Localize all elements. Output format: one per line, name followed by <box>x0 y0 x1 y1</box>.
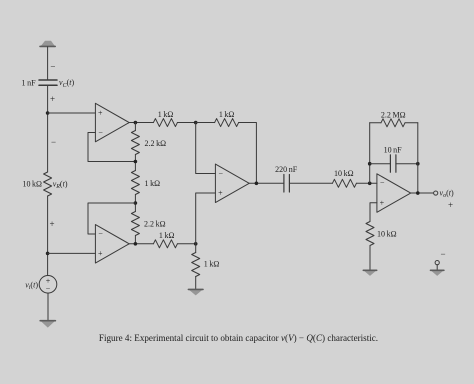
svg-text:10 kΩ: 10 kΩ <box>334 169 354 178</box>
node n7 <box>194 242 198 246</box>
capacitor C2 220nF <box>284 175 290 193</box>
resistor R8 1k <box>153 119 177 127</box>
wire R1 to node n2 to source Vs <box>47 196 49 276</box>
ground (below terminal T2) <box>430 270 444 276</box>
wire n10 up to feedback branches <box>369 123 371 184</box>
wire R5 to node n7 <box>177 243 195 245</box>
svg-text:1 kΩ: 1 kΩ <box>204 259 220 268</box>
wire n4 to R2 <box>134 123 136 131</box>
node d3 (U4 output) <box>416 191 420 195</box>
node n3 <box>134 160 138 164</box>
svg-text:vR(t): vR(t) <box>53 179 68 190</box>
svg-text:1 kΩ: 1 kΩ <box>145 179 161 188</box>
wire U2 output to node n6 to R5 <box>129 243 153 245</box>
svg-text:−: − <box>46 285 51 294</box>
node n8 <box>194 121 198 125</box>
wire right vertical down to output node <box>417 123 419 193</box>
svg-text:+: + <box>218 189 223 198</box>
svg-text:−: − <box>98 230 103 239</box>
op-amp U2 <box>95 225 129 263</box>
wire R9 through node n10 to U4 - input <box>356 182 377 184</box>
wire n1 to U1 + input <box>48 112 96 114</box>
node n5 <box>134 201 138 205</box>
ground (signal, up-pointing, top of C1) <box>40 41 55 47</box>
op-amp U4 <box>377 174 411 213</box>
svg-text:−: − <box>98 128 103 137</box>
wire R8 to node n8 <box>177 122 195 124</box>
wire R6 to ground <box>195 277 197 290</box>
op-amp U3 <box>215 164 249 203</box>
svg-text:−: − <box>219 169 224 178</box>
wire n7 up to U3 + input <box>196 193 216 244</box>
wire ground to C1 top <box>47 47 49 80</box>
resistor R1 10k <box>44 172 52 196</box>
resistor R4 2.2k <box>131 212 139 236</box>
capacitor C1 1nF <box>39 80 57 85</box>
wire n7 down to R6 <box>195 244 197 253</box>
wire U3 output through n9 to C2 <box>249 182 284 184</box>
svg-text:+: + <box>50 219 55 229</box>
node n9 (U3 output) <box>255 182 259 186</box>
terminal T1 vo(t) <box>434 191 438 195</box>
node n10 <box>368 182 372 186</box>
resistor R9 10k <box>332 179 356 187</box>
wire n2 to U2 + input <box>48 252 96 254</box>
svg-text:+: + <box>50 94 55 104</box>
wire U1 output to node n4 to R8 <box>129 122 153 124</box>
source Vs vi(t) <box>39 276 57 294</box>
svg-text:2.2 MΩ: 2.2 MΩ <box>381 110 406 119</box>
svg-text:10 kΩ: 10 kΩ <box>377 229 397 238</box>
svg-text:+: + <box>380 199 385 208</box>
node n6 (U2 output) <box>134 242 138 246</box>
svg-text:vi(t): vi(t) <box>25 280 38 291</box>
node d2 (C3 branch right) <box>416 162 420 166</box>
svg-text:1 kΩ: 1 kΩ <box>159 231 175 240</box>
svg-text:2.2 kΩ: 2.2 kΩ <box>144 219 166 228</box>
svg-text:−: − <box>51 137 56 147</box>
node d1 (C3 branch left) <box>368 162 372 166</box>
svg-text:−: − <box>50 61 55 71</box>
wire C2 to R9 <box>289 182 332 184</box>
wire top branch left to R10 <box>370 122 381 124</box>
wire U2 - input feedback from node n5 <box>88 203 135 234</box>
svg-text:−: − <box>380 178 385 187</box>
resistor R11 10k <box>366 222 374 246</box>
wire Vs to ground <box>47 293 49 320</box>
wire n8 to R7 <box>196 122 215 124</box>
wire R4 to node n6 <box>134 236 136 244</box>
svg-text:−: − <box>441 249 446 259</box>
svg-text:+: + <box>448 200 453 210</box>
node n1 <box>46 111 50 115</box>
resistor R10 2.2M <box>381 119 405 127</box>
terminal T2 (reference) <box>435 261 439 265</box>
resistor R7 1k (feedback over U3) <box>215 119 239 127</box>
wire R3 to node n5 <box>134 195 136 212</box>
wire T2 to ground <box>436 265 438 270</box>
svg-text:1 kΩ: 1 kΩ <box>219 110 235 119</box>
wire n8 down to U3 - input <box>196 123 216 174</box>
svg-text:1 kΩ: 1 kΩ <box>158 110 174 119</box>
svg-text:10 kΩ: 10 kΩ <box>22 179 42 188</box>
ground (bottom of R11) <box>363 270 377 276</box>
ground (bottom of R6) <box>188 289 203 295</box>
wire R11 to ground <box>369 246 371 270</box>
svg-text:+: + <box>98 249 103 258</box>
svg-text:220 nF: 220 nF <box>275 165 298 174</box>
resistor R2 2.2k <box>131 131 139 155</box>
svg-text:10 nF: 10 nF <box>384 145 403 154</box>
wire U4 output to terminal <box>411 192 434 194</box>
wire d1 to C3 left plate <box>370 163 391 165</box>
wire R7 down to node n9 <box>239 123 257 184</box>
resistor R3 1k <box>131 171 139 195</box>
wire C1 bottom to node n1 to resistor R1 <box>47 85 49 172</box>
resistor R6 1k <box>192 253 200 277</box>
wire R2 to node n3 <box>134 155 136 171</box>
resistor R5 1k <box>153 240 177 248</box>
node n4 (U1 output) <box>134 121 138 125</box>
svg-text:Figure 4: Experimental circuit: Figure 4: Experimental circuit to obtain… <box>99 333 378 343</box>
svg-text:+: + <box>98 109 103 118</box>
capacitor C3 10nF <box>390 155 396 172</box>
wire C3 right plate to node d2 <box>396 163 418 165</box>
op-amp U1 <box>95 103 129 142</box>
svg-text:2.2 kΩ: 2.2 kΩ <box>145 139 167 148</box>
wire U4 + input down to R11 <box>370 203 377 222</box>
wire U1 - input feedback from node n3 <box>88 133 135 162</box>
wire R10 to right vertical <box>405 122 418 124</box>
ground (bottom of source Vs) <box>40 320 56 327</box>
svg-text:1 nF: 1 nF <box>22 78 37 87</box>
node n2 <box>46 252 50 256</box>
